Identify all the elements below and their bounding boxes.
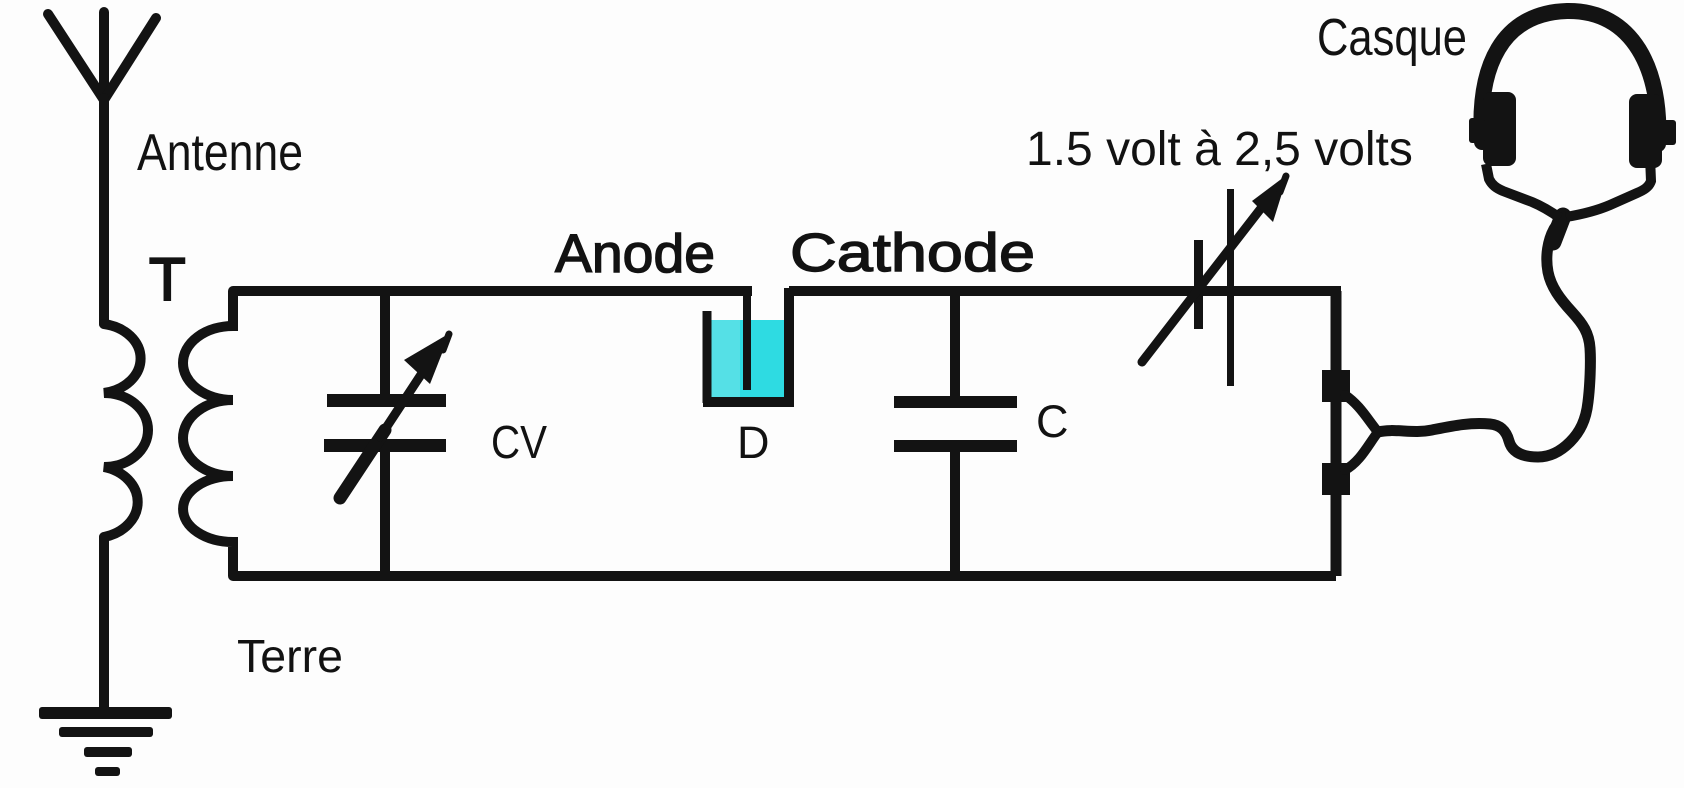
transformer T secondary coil [183, 291, 233, 576]
svg-text:Anode: Anode [555, 224, 715, 284]
svg-text:1.5 volt à 2,5 volts: 1.5 volt à 2,5 volts [1026, 123, 1413, 176]
headphone jack terminal bottom [1322, 463, 1350, 495]
detector D anode electrode [743, 291, 751, 390]
svg-text:Terre: Terre [237, 630, 343, 682]
variable capacitor CV [324, 291, 450, 576]
headphone right lower frame [1566, 157, 1651, 217]
svg-text:T: T [149, 246, 186, 313]
ground (Terre symbol) [39, 707, 172, 776]
headphone left earcup [1469, 92, 1516, 166]
headphone band [1481, 11, 1658, 144]
detector D cup [703, 288, 794, 407]
capacitor C [894, 291, 1017, 576]
battery short plate [1194, 240, 1203, 329]
svg-text:CV: CV [491, 416, 547, 468]
svg-text:Casque: Casque [1317, 9, 1467, 67]
wire bottom [233, 571, 1336, 581]
wire right vertical [1331, 291, 1342, 576]
headphone right earcup [1629, 94, 1676, 168]
headphone jack terminal top [1322, 370, 1350, 402]
antenna [48, 12, 156, 324]
svg-text:D: D [737, 417, 770, 468]
battery arrow [1142, 207, 1262, 362]
cord Y junction [1345, 395, 1378, 470]
detector D electrolyte liquid [708, 320, 787, 399]
wire top-left segment [233, 286, 752, 296]
wire top-right segment [789, 286, 1341, 296]
battery long plate [1227, 189, 1234, 386]
cord trunk below headphone [1553, 216, 1563, 242]
svg-text:Antenne: Antenne [137, 124, 303, 182]
transformer T primary coil [104, 324, 148, 708]
svg-text:Cathode: Cathode [790, 223, 1035, 283]
headphone cord [1378, 220, 1590, 457]
headphone left lower frame [1486, 164, 1560, 218]
svg-text:C: C [1036, 396, 1069, 447]
